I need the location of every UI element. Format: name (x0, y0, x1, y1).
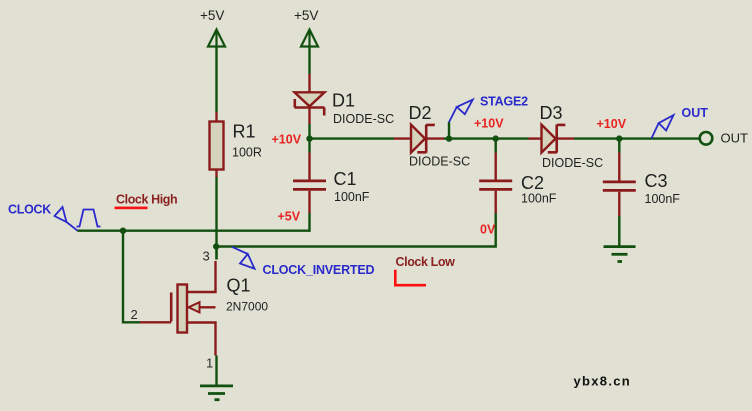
svg-text:ybx8.cn: ybx8.cn (574, 374, 632, 389)
svg-text:+10V: +10V (474, 117, 504, 131)
svg-text:DIODE-SC: DIODE-SC (409, 155, 470, 169)
D3 cathode pin (558, 137, 574, 139)
C3 bottom pin (618, 192, 620, 216)
svg-text:Clock High: Clock High (116, 193, 177, 207)
wire D3 cathode to OUT terminal (574, 137, 700, 139)
D1 anode pin (308, 74, 310, 93)
svg-text:OUT: OUT (721, 131, 749, 146)
junction dot C3 top (616, 135, 622, 141)
svg-text:0V: 0V (480, 223, 496, 237)
svg-text:+10V: +10V (272, 133, 302, 147)
svg-text:DIODE-SC: DIODE-SC (333, 112, 394, 126)
STAGE2 label arrow (449, 100, 473, 123)
svg-text:+5V: +5V (200, 8, 224, 23)
node junction dot at D1/C1 (306, 135, 312, 141)
junction dot C2 top (493, 135, 499, 141)
Q1 gate pin (140, 321, 171, 323)
svg-text:3: 3 (203, 249, 210, 264)
svg-text:DIODE-SC: DIODE-SC (542, 156, 603, 170)
svg-text:CLOCK_INVERTED: CLOCK_INVERTED (263, 263, 375, 277)
svg-text:2: 2 (131, 307, 138, 322)
svg-text:100nF: 100nF (334, 190, 370, 204)
svg-text:100nF: 100nF (521, 192, 557, 206)
svg-text:1: 1 (206, 356, 213, 371)
ground (under C3) (604, 247, 636, 262)
D1 cathode pin (308, 109, 310, 125)
svg-text:100R: 100R (232, 146, 262, 160)
svg-text:R1: R1 (233, 122, 256, 142)
C2 bottom pin (495, 191, 497, 213)
wire C3 bottom to ground (618, 216, 620, 247)
Q1 source pin wire (215, 356, 217, 387)
capacitor C2 (479, 181, 512, 190)
R1 top pin (215, 112, 217, 123)
power +5V symbol (left, above R1) (208, 30, 225, 47)
svg-text:+10V: +10V (597, 117, 627, 131)
diode D2 (Schottky, pointing right) (411, 125, 435, 153)
transistor Q1 (NMOS 2N7000) (171, 261, 215, 356)
svg-text:+5V: +5V (278, 210, 301, 224)
diode D1 (Schottky, pointing down) (295, 92, 325, 115)
wire +10V rail: node1 to D2 anode (310, 137, 395, 139)
svg-text:OUT: OUT (682, 106, 709, 120)
D3 anode pin (529, 137, 542, 139)
C1 bottom pin (308, 191, 310, 213)
svg-text:100nF: 100nF (645, 192, 681, 206)
wire CLOCK_INVERTED horizontal to C2 bottom (216, 213, 496, 247)
wire +5V to D1 anode (308, 47, 310, 75)
C3 top pin (618, 139, 620, 153)
resistor R1 (210, 122, 224, 170)
junction dot STAGE2 tap (446, 135, 452, 141)
wire CLOCK horizontal (77, 229, 309, 231)
ground (under Q1) (200, 386, 233, 400)
wire D1 cathode to +10V node / C1 top (308, 124, 310, 153)
capacitor C1 (293, 181, 326, 190)
svg-text:C2: C2 (521, 173, 544, 193)
wire R1 bottom to drain junction (215, 177, 217, 260)
R1 bottom pin (215, 170, 217, 178)
OUT label arrow (651, 115, 673, 138)
svg-text:D2: D2 (409, 103, 432, 123)
CLOCK waveform symbol (77, 210, 101, 227)
C2 top pin (495, 139, 497, 153)
wire C1 bottom to CLOCK net (308, 213, 310, 232)
junction dot CLOCK/gate branch (120, 228, 126, 234)
power +5V symbol (right, above D1) (301, 30, 318, 47)
STAGE2 label stub wire (448, 122, 450, 139)
svg-text:STAGE2: STAGE2 (480, 95, 528, 109)
wire gate branch (junction down and right to Q1 gate) (123, 231, 140, 323)
svg-text:Q1: Q1 (227, 276, 251, 296)
svg-text:C3: C3 (645, 171, 668, 191)
C1 top pin (308, 153, 310, 181)
svg-text:+5V: +5V (294, 8, 318, 23)
diode D3 (Schottky, pointing right) (542, 125, 566, 153)
capacitor C3 (603, 182, 636, 191)
svg-text:D3: D3 (540, 103, 563, 123)
wire D2 cathode to D3 anode (444, 137, 529, 139)
CLOCK label arrow (55, 207, 78, 231)
C3 top pin maroon (618, 153, 620, 182)
svg-text:2N7000: 2N7000 (226, 300, 268, 314)
svg-text:Clock Low: Clock Low (396, 255, 456, 269)
wire +5V to R1 (215, 47, 217, 113)
OUT terminal circle (700, 132, 713, 145)
C2 top pin maroon (495, 153, 497, 181)
wire drain to junction (215, 247, 217, 260)
svg-text:C1: C1 (334, 169, 357, 189)
D2 cathode pin (427, 137, 444, 139)
Clock High red underline (115, 207, 148, 210)
svg-text:D1: D1 (332, 91, 355, 111)
Clock Low red bracket (395, 270, 426, 286)
junction dot drain / CLOCK_INVERTED (213, 243, 219, 249)
D2 anode pin (394, 137, 411, 139)
CLOCK_INVERTED label arrow (232, 247, 255, 269)
svg-text:CLOCK: CLOCK (8, 203, 51, 217)
